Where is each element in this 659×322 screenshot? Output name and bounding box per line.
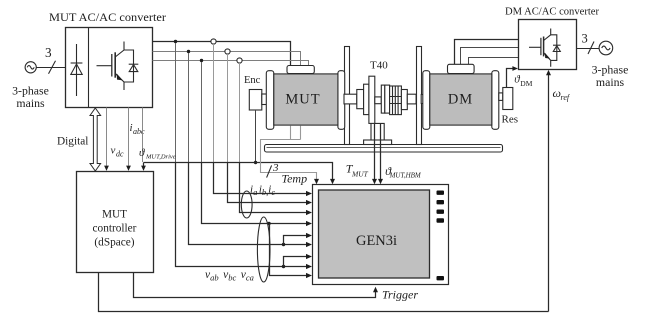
wire i_c to GEN3i bbox=[240, 163, 308, 213]
DM terminal box bbox=[448, 64, 475, 73]
svg-text:DM AC/AC converter: DM AC/AC converter bbox=[505, 6, 599, 18]
svg-text:MUT,Drive: MUT,Drive bbox=[145, 154, 176, 161]
pedestal plate right bbox=[417, 47, 422, 145]
junction node C bbox=[200, 59, 203, 62]
svg-text:DM: DM bbox=[448, 92, 473, 108]
motor MUT right end cap bbox=[338, 71, 345, 130]
encoder shaft stub bbox=[262, 94, 267, 105]
current sensor phase a bbox=[211, 39, 216, 44]
svg-text:Digital: Digital bbox=[57, 136, 88, 148]
IGBT Q1 bbox=[97, 42, 125, 91]
svg-text:MUT: MUT bbox=[102, 209, 127, 221]
svg-text:T40: T40 bbox=[370, 60, 388, 72]
slash temp 3 wires bbox=[267, 165, 272, 177]
svg-text:ϑ: ϑ bbox=[139, 147, 145, 159]
T40 left hub bbox=[357, 90, 364, 109]
current sensor phase c bbox=[237, 58, 242, 63]
wire v_bc branch upper input bbox=[284, 236, 308, 245]
svg-text:Temp: Temp bbox=[282, 172, 308, 186]
T40 left disc bbox=[364, 84, 369, 114]
pedestal plate left bbox=[345, 47, 350, 145]
T40 disc 2 bbox=[381, 85, 385, 113]
bundle ellipse voltages bbox=[257, 217, 270, 282]
T40 right shaft bbox=[407, 94, 416, 104]
svg-text:GEN3i: GEN3i bbox=[356, 233, 397, 249]
wire v_bc tap down bbox=[188, 53, 190, 163]
wire v_ab branch bottom input bbox=[270, 224, 308, 276]
T40 right shaft through plate bbox=[421, 95, 423, 104]
diode D1 rectifier bbox=[71, 44, 83, 96]
svg-text:DM: DM bbox=[520, 79, 532, 88]
digital bus double arrow bbox=[90, 108, 101, 171]
freewheel diode D2 bbox=[124, 50, 138, 82]
svg-text:MUT,HBM: MUT,HBM bbox=[389, 172, 422, 180]
motor DM body bbox=[430, 74, 492, 125]
T40 mid shaft bbox=[375, 97, 382, 104]
wire phase B DM bbox=[461, 48, 519, 66]
wire v_ab to GEN3i bbox=[202, 163, 308, 224]
svg-text:controller: controller bbox=[93, 223, 137, 235]
junction node A bbox=[174, 40, 177, 43]
AC source right (3-phase mains) bbox=[599, 41, 613, 55]
IGBT Q2 bbox=[529, 29, 551, 67]
bundle ellipse currents bbox=[241, 191, 252, 218]
wire phase B MUT bbox=[153, 52, 301, 66]
motor DM left end cap bbox=[423, 71, 430, 130]
svg-text:Trigger: Trigger bbox=[382, 288, 418, 302]
svg-text:3: 3 bbox=[45, 45, 52, 60]
slash 3-phase marker right bbox=[588, 42, 594, 55]
slash 3-phase marker left bbox=[49, 61, 56, 74]
label MUT controller (dSpace) bbox=[93, 209, 137, 249]
AC source left (3-phase mains) bbox=[25, 62, 36, 73]
wire v_ca tap down bbox=[175, 43, 177, 163]
junction encoder node bbox=[254, 161, 257, 164]
svg-text:3: 3 bbox=[582, 32, 588, 46]
svg-text:3: 3 bbox=[272, 162, 279, 174]
wire i_b to GEN3i bbox=[228, 163, 308, 203]
freewheel diode D3 bbox=[551, 35, 561, 61]
GEN3i screen bbox=[319, 190, 430, 278]
wire v_ca branch upper input bbox=[284, 257, 308, 267]
svg-text:MUT AC/AC converter: MUT AC/AC converter bbox=[49, 10, 166, 24]
wire phase C DM bbox=[469, 58, 519, 66]
wire omega_ref feedback from controller bbox=[99, 273, 549, 312]
base plate bbox=[265, 145, 503, 153]
wire v_ca to GEN3i bbox=[176, 163, 308, 267]
wire i_c sensor down bbox=[239, 63, 241, 163]
junction v_bc split bbox=[282, 243, 285, 246]
wire left mains to MUT converter bbox=[36, 67, 65, 69]
wire encoder angle to GEN3i bbox=[144, 163, 333, 182]
wire i_abc to controller bbox=[128, 108, 130, 166]
T40 foot plate bbox=[364, 140, 392, 145]
wire encoder down bbox=[255, 110, 257, 163]
junction node B bbox=[187, 50, 190, 53]
svg-text:abc: abc bbox=[133, 127, 145, 136]
svg-text:mains: mains bbox=[596, 75, 625, 89]
svg-text:v: v bbox=[111, 145, 116, 157]
wire i_b sensor down bbox=[227, 54, 229, 163]
motor DM right end cap bbox=[492, 71, 499, 130]
wire phase A DM bbox=[455, 40, 519, 66]
wire phase A MUT converter to motor bbox=[153, 42, 291, 66]
MUT terminal box bbox=[287, 66, 314, 74]
wire i_a to GEN3i bbox=[214, 163, 308, 194]
GEN3i recorder box bbox=[313, 185, 449, 285]
wire encoder angle to controller bbox=[143, 163, 145, 167]
wire v_bc to GEN3i bbox=[189, 163, 308, 245]
svg-text:MUT: MUT bbox=[285, 92, 320, 108]
svg-text:Res: Res bbox=[502, 114, 519, 126]
wire gate/theta to controller bbox=[142, 108, 144, 163]
motor MUT left end cap bbox=[266, 71, 274, 130]
MUT AC/AC converter U1 box bbox=[66, 28, 153, 108]
svg-text:Enc: Enc bbox=[244, 75, 261, 86]
wire T_MUT down to GEN3i bbox=[374, 124, 376, 182]
encoder box Enc bbox=[249, 90, 261, 111]
resolver box Res bbox=[503, 88, 513, 110]
wire trigger controller to GEN3i bbox=[134, 273, 376, 298]
wire temperature sensors gray bbox=[261, 126, 317, 182]
svg-text:MUT: MUT bbox=[351, 170, 369, 179]
current sensor phase b bbox=[225, 49, 230, 54]
T40 support bracket bbox=[371, 123, 384, 140]
svg-text:mains: mains bbox=[16, 96, 45, 110]
label 3-phase mains right bbox=[592, 63, 629, 90]
T40 left shaft bbox=[344, 94, 357, 104]
GEN3i buttons bbox=[437, 191, 445, 281]
svg-text:dc: dc bbox=[116, 150, 124, 159]
wire theta_MUT,HBM down to GEN3i bbox=[380, 124, 382, 182]
wire DM converter to right mains bbox=[577, 48, 600, 50]
wire phase C MUT bbox=[153, 61, 309, 66]
wire omega_ref up to DM converter bbox=[548, 72, 550, 311]
motor MUT body bbox=[274, 74, 338, 125]
wire i_a sensor down bbox=[213, 44, 215, 163]
wire v_ab tap down bbox=[201, 62, 203, 163]
DM AC/AC converter U2 box bbox=[519, 20, 577, 70]
junction v_ca split bbox=[282, 265, 285, 268]
wire theta_DM resolver to converter bbox=[507, 69, 515, 88]
MUT controller box bbox=[77, 172, 154, 273]
T40 body bbox=[369, 76, 375, 123]
label 3-phase mains left bbox=[12, 84, 49, 111]
T40 right hub bbox=[401, 90, 407, 110]
junction v_ab split bbox=[267, 222, 270, 225]
wire v_dc to controller bbox=[106, 108, 108, 166]
T40 disc 3 bbox=[385, 85, 390, 113]
T40 lamella coupling pack bbox=[390, 86, 402, 115]
resolver shaft stub bbox=[499, 93, 503, 101]
svg-text:(dSpace): (dSpace) bbox=[94, 237, 134, 249]
